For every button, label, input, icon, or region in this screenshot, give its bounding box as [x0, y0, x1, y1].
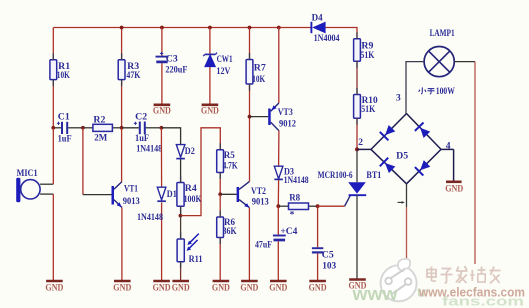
wire C4 down [277, 241, 279, 281]
resistor R9 [354, 39, 375, 62]
svg-text:VT1: VT1 [124, 184, 138, 194]
svg-text:D5: D5 [396, 152, 408, 162]
wire D2 to R4 [180, 159, 182, 182]
wire R6 down [219, 238, 221, 282]
svg-text:1uF: 1uF [58, 134, 72, 144]
svg-text:100W: 100W [436, 87, 455, 97]
resistor R8 [278, 194, 317, 221]
resistor R4 [177, 183, 202, 207]
svg-text:C3: C3 [166, 55, 178, 65]
svg-text:D2: D2 [185, 147, 195, 157]
svg-text:D4: D4 [312, 14, 323, 24]
svg-text:2: 2 [358, 138, 363, 148]
wire junction to R6 [219, 194, 221, 217]
wire VT2 emitter down [248, 208, 250, 281]
node C2 right junction [160, 126, 164, 130]
label under-100W [419, 87, 435, 94]
svg-text:1N4004: 1N4004 [314, 34, 340, 44]
node R8 left junction [276, 204, 280, 208]
svg-text:9012: 9012 [279, 119, 296, 129]
svg-text:GND: GND [212, 283, 230, 293]
svg-text:MIC1: MIC1 [17, 169, 38, 179]
wire resistor lead stubs [53, 32, 357, 268]
svg-text:C1: C1 [58, 113, 70, 123]
capacitor C1 [53, 113, 83, 145]
svg-text:VT3: VT3 [278, 108, 293, 118]
wire BT1 cathode down [356, 195, 358, 279]
wire C4 branch [277, 206, 279, 234]
svg-text:GND: GND [445, 184, 463, 194]
diode bridge bottom-right [415, 160, 430, 175]
svg-text:C5: C5 [322, 251, 334, 261]
svg-text:103: 103 [322, 262, 336, 272]
svg-text:9013: 9013 [123, 197, 140, 207]
ground BT1 [349, 280, 367, 291]
svg-text:R4: R4 [185, 184, 197, 194]
svg-text:2M: 2M [94, 133, 107, 143]
svg-text:GND: GND [172, 283, 190, 293]
wire C5 branch [317, 206, 319, 247]
wire VT3 base lead [250, 116, 269, 118]
svg-text:36K: 36K [223, 227, 238, 237]
ground R6 [212, 281, 230, 293]
wire mic bottom lead down [52, 194, 54, 281]
wire BT1 anode up [356, 149, 358, 182]
wire lamp right lead [454, 61, 475, 63]
resistor R3 [118, 60, 141, 81]
svg-text:GND: GND [113, 283, 131, 293]
resistor R6 [217, 217, 237, 238]
transistor VT1 [112, 182, 141, 208]
diode bridge bottom-left [380, 158, 396, 173]
wire VT3 collector down to D3 [278, 131, 280, 166]
svg-text:LAMP1: LAMP1 [430, 29, 455, 39]
svg-text:1N4148: 1N4148 [136, 145, 162, 155]
ground C3 [153, 105, 171, 116]
ground bridge [445, 182, 463, 194]
ground C5 [309, 281, 327, 293]
label pin 1 arrow mark [398, 201, 405, 204]
svg-text:4: 4 [446, 141, 451, 151]
diode bridge D5 frame [357, 114, 454, 184]
svg-text:R5: R5 [224, 151, 235, 161]
wire VT1 emitter down [121, 207, 123, 281]
wire VT1 base from R2 junction [83, 128, 112, 195]
wire R7 branch [249, 28, 251, 182]
node R4 bottom junction [179, 214, 183, 218]
svg-text:GND: GND [269, 283, 287, 293]
svg-text:1N4148: 1N4148 [137, 213, 163, 223]
wire R9 to R10 [356, 61, 358, 94]
wire VT1 collector up [121, 128, 123, 182]
svg-text:10K: 10K [252, 75, 265, 85]
svg-text:www.elecfans.com: www.elecfans.com [418, 286, 525, 300]
svg-text:4.7K: 4.7K [223, 161, 238, 171]
watermark logo circle [381, 259, 417, 302]
diode bridge top-left [380, 125, 396, 140]
ground CW1 [201, 105, 219, 116]
wire R1 branch vertical [52, 28, 54, 128]
capacitor C3 [156, 52, 188, 76]
svg-text:R2: R2 [93, 115, 105, 125]
wire D1 branch [160, 128, 162, 281]
resistor R5 [217, 150, 238, 173]
svg-text:GND: GND [153, 105, 171, 115]
svg-text:GND: GND [153, 283, 171, 293]
transistor VT3 [268, 103, 296, 131]
node bridge corner 2 [355, 138, 363, 152]
svg-text:BT1: BT1 [366, 171, 381, 181]
photoresistor R11 [177, 234, 203, 265]
svg-text:R11: R11 [189, 255, 203, 265]
svg-text:D1: D1 [167, 190, 177, 200]
wire D3 to R8 junction [277, 180, 279, 206]
wire R3 branch vertical [121, 28, 123, 128]
node R2-R3 junction [120, 126, 124, 130]
svg-text:C2: C2 [135, 112, 147, 122]
wire bridge corner 1 down [406, 184, 408, 260]
wire mic top lead up [52, 128, 54, 184]
svg-text:R7: R7 [254, 64, 266, 74]
capacitor C5 [312, 248, 337, 271]
capacitor C2 [122, 112, 163, 154]
thyristor BT1 [318, 171, 382, 195]
wire CW1 branch [209, 28, 211, 105]
wire R5 bottom to junction [219, 173, 221, 195]
svg-text:+C4: +C4 [280, 227, 297, 237]
ground VT2 [240, 281, 258, 293]
resistor R2 [83, 115, 122, 143]
svg-text:R8: R8 [289, 194, 300, 204]
wire C3 branch [161, 28, 163, 105]
transistor VT2 [237, 182, 269, 208]
wire feedback loop R4 to R5 [181, 128, 221, 216]
wire R4 to R11 [180, 216, 182, 239]
ground VT1 [113, 281, 131, 293]
wire lamp left lead [406, 62, 424, 114]
wire VT2 base lead [220, 193, 236, 195]
zener diode CW1 [203, 53, 233, 77]
svg-text:MCR100-6: MCR100-6 [318, 171, 353, 181]
diode D2 [176, 145, 195, 159]
capacitor C4 [255, 227, 298, 251]
node R8 right junction [316, 204, 320, 208]
svg-text:GND: GND [45, 283, 63, 293]
ground MIC1 [45, 281, 63, 293]
node VT2 base junction [218, 192, 222, 196]
wire rail to D4 [279, 27, 311, 29]
svg-text:51K: 51K [360, 51, 375, 61]
diode D3 [274, 166, 308, 186]
svg-text:3: 3 [396, 93, 401, 103]
svg-text:10K: 10K [57, 71, 70, 81]
resistor R1 [50, 60, 71, 81]
resistor R7 [246, 60, 266, 85]
wire C5 down [317, 254, 319, 281]
diode bridge top-right [415, 123, 430, 139]
svg-text:100K: 100K [184, 195, 203, 205]
wire gate diagonal [345, 195, 351, 206]
watermark chinese brand text [427, 266, 501, 284]
ground R11 [172, 281, 190, 293]
wire top rail [53, 27, 278, 29]
svg-text:*: * [290, 211, 295, 221]
wire C2 to D2 corner [161, 128, 180, 144]
wire R10 to bridge corner 2 [356, 118, 358, 149]
svg-text:220uF: 220uF [165, 66, 187, 76]
svg-text:51K: 51K [361, 105, 376, 115]
node C1-R2 junction [81, 126, 85, 130]
ground D1 [153, 281, 171, 293]
svg-text:1uF: 1uF [135, 134, 149, 144]
ground C4 [269, 281, 287, 293]
wire right edge down [474, 62, 476, 264]
diode D1 [137, 187, 177, 223]
node rail junction dots [120, 26, 281, 30]
svg-text:12V: 12V [216, 67, 230, 77]
wire gate horizontal [318, 205, 345, 207]
wire D4 to R9 corner [326, 28, 357, 39]
svg-text:1N4148: 1N4148 [284, 176, 309, 186]
lamp LAMP1 [424, 29, 455, 77]
svg-text:GND: GND [309, 283, 327, 293]
diode D4 [311, 14, 339, 44]
microphone MIC1 [16, 169, 53, 202]
wire R11 down [180, 262, 182, 281]
svg-text:CW1: CW1 [217, 55, 233, 65]
svg-text:www: www [351, 284, 398, 304]
svg-text:47K: 47K [126, 71, 141, 81]
node VT3 base junction [248, 115, 252, 119]
svg-text:9013: 9013 [252, 197, 269, 207]
svg-text:VT2: VT2 [251, 187, 266, 197]
resistor R10 [354, 95, 378, 119]
svg-text:GND: GND [201, 105, 219, 115]
svg-text:GND: GND [240, 283, 258, 293]
node C1 left junction [51, 126, 55, 130]
svg-text:47uF: 47uF [255, 241, 272, 251]
wire R4 bottom [180, 206, 182, 215]
wire VT3 emitter up [278, 28, 280, 104]
